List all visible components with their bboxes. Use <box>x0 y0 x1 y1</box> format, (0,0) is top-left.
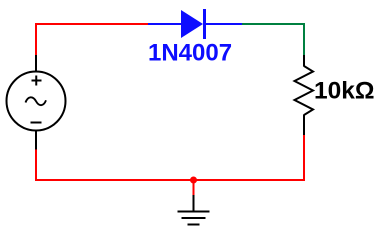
svg-text:10kΩ: 10kΩ <box>314 78 375 105</box>
svg-text:1N4007: 1N4007 <box>148 40 232 67</box>
